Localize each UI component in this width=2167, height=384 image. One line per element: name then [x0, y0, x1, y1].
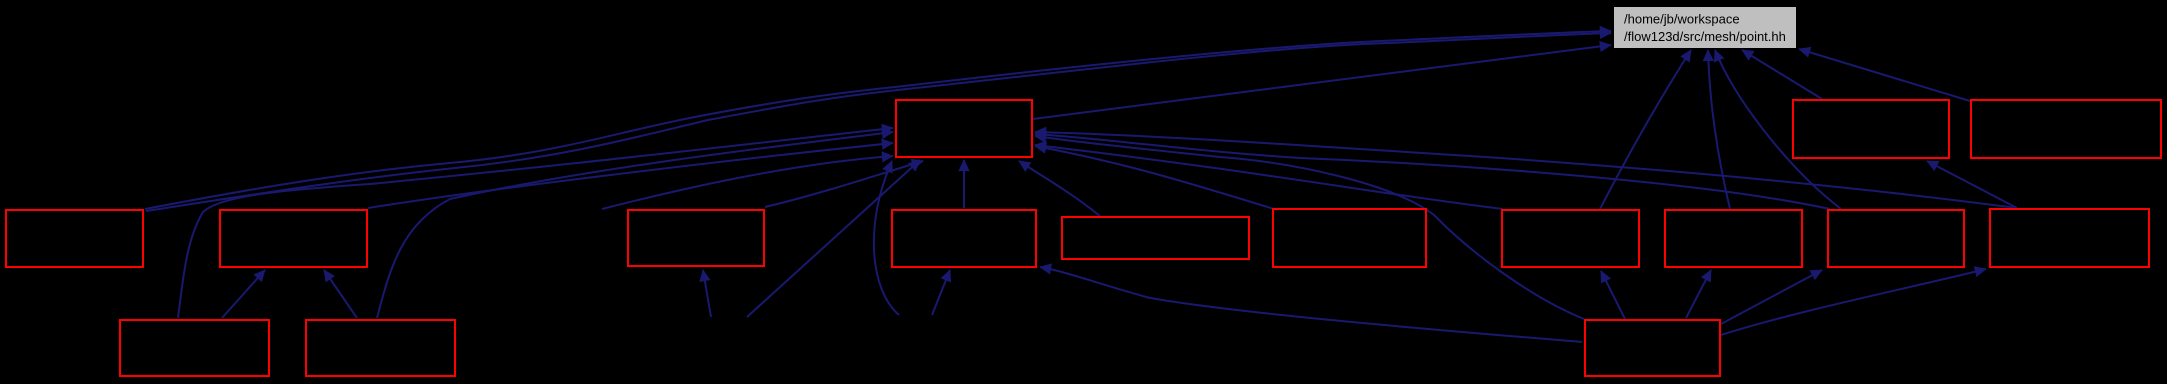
- wire stub to C diagonal: [747, 160, 920, 317]
- wire M to C: [1035, 132, 2017, 208]
- wire O to E: [324, 270, 357, 318]
- wire J to root: [1600, 50, 1691, 209]
- node C mesh hub: [896, 100, 1032, 157]
- wire I to C: [1035, 146, 1274, 209]
- wire stub to F: [703, 270, 711, 317]
- node F: [628, 210, 764, 266]
- wire P to K: [1686, 270, 1711, 318]
- wire stub to G: [932, 270, 950, 315]
- node M: [1990, 209, 2149, 267]
- node J: [1502, 210, 1639, 267]
- wire P to C: [1035, 136, 1584, 319]
- node B: [1971, 100, 2161, 158]
- wire J to C: [1035, 145, 1503, 209]
- node H: [1062, 217, 1249, 259]
- node N: [120, 320, 269, 376]
- node D: [6, 210, 143, 267]
- wire E to C: [368, 143, 893, 208]
- wire P to M: [1721, 269, 1986, 335]
- svg-text:/flow123d/src/mesh/point.hh: /flow123d/src/mesh/point.hh: [1624, 29, 1786, 44]
- wire N to C: [178, 128, 893, 318]
- wire C to root: [1033, 45, 1611, 119]
- svg-text:/home/jb/workspace: /home/jb/workspace: [1624, 12, 1740, 27]
- node K: [1665, 210, 1802, 267]
- wire P to J: [1601, 271, 1625, 319]
- wire G to C: [963, 160, 965, 208]
- node L: [1828, 210, 1964, 267]
- wire P to L: [1721, 270, 1822, 324]
- node E: [220, 210, 367, 267]
- node A: [1793, 100, 1949, 158]
- wire B to root: [1799, 49, 1970, 101]
- wire F to C: [765, 161, 923, 207]
- wire L to C: [1035, 134, 1830, 209]
- wire O to C: [377, 132, 893, 318]
- node root point.hh: [1614, 7, 1796, 48]
- wire L to root: [1715, 50, 1841, 209]
- wire M to A: [1927, 161, 2017, 208]
- node P: [1585, 320, 1720, 376]
- wire stub curve to C corner: [874, 161, 899, 315]
- node O: [306, 320, 455, 376]
- wire hidden node to C corner: [602, 156, 893, 209]
- wire A to root: [1742, 50, 1822, 99]
- wire N to E: [222, 270, 265, 318]
- node I: [1273, 209, 1426, 267]
- wire D to root: [145, 31, 1611, 209]
- wire K to root: [1708, 50, 1730, 209]
- wire P to G: [1040, 267, 1582, 342]
- wire E to root: [146, 33, 1611, 211]
- wire H to C: [1019, 161, 1100, 216]
- node G: [892, 210, 1036, 267]
